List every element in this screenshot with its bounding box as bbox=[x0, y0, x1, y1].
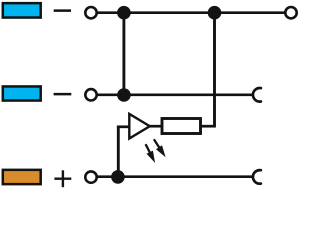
LED emission arrow upper bbox=[154, 139, 166, 157]
terminal contact (open circle) row 1 left bbox=[85, 7, 96, 18]
wire resistor to vertical branch bbox=[201, 125, 216, 128]
plus label row 3 horizontal stroke bbox=[54, 177, 71, 179]
minus label row 2 bbox=[54, 93, 72, 96]
terminal marker (orange) row 3 bbox=[3, 170, 41, 184]
terminal contact (open circle) row 3 bbox=[85, 171, 96, 182]
wire rail 1 bbox=[97, 11, 286, 14]
terminal marker (cyan) row 2 bbox=[3, 86, 41, 100]
wire rail 2 bbox=[97, 94, 254, 97]
terminal contact (open circle) row 1 right bbox=[285, 7, 296, 18]
wire LED cathode to resistor bbox=[150, 125, 162, 128]
junction dot rail1-left bbox=[117, 6, 131, 20]
wire vertical from rail1 right dot down to resistor branch bbox=[213, 13, 216, 127]
LED D1 diode triangle bbox=[129, 114, 150, 139]
terminal contact (open circle) row 2 bbox=[85, 89, 96, 100]
socket contact arc rail 2 bbox=[253, 88, 261, 102]
LED emission arrow lower bbox=[146, 144, 156, 163]
wire vertical from rail1 dot to rail2 dot bbox=[122, 13, 125, 95]
resistor R1 bbox=[162, 119, 201, 134]
plus label row 3 vertical stroke bbox=[62, 170, 64, 187]
terminal marker (cyan) row 1 bbox=[3, 3, 41, 17]
wire vertical from rail3 dot up to LED bbox=[117, 126, 120, 176]
junction dot rail3 bbox=[111, 170, 125, 184]
wire rail 3 bbox=[97, 175, 254, 178]
junction dot rail2 bbox=[117, 88, 131, 102]
junction dot rail1-right bbox=[208, 6, 222, 20]
minus label row 1 bbox=[54, 9, 71, 12]
socket contact arc rail 3 bbox=[253, 170, 261, 184]
wire horizontal into LED anode bbox=[117, 125, 129, 128]
